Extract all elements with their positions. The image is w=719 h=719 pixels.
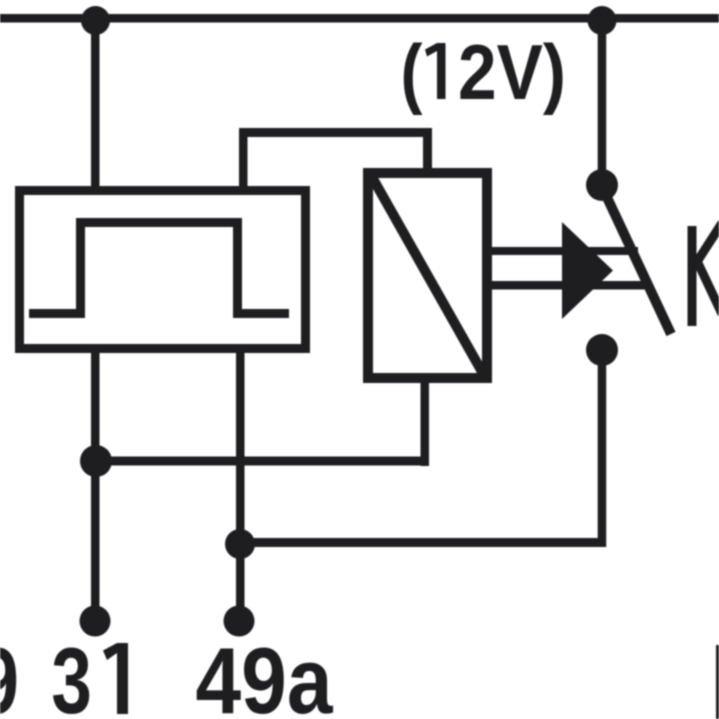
wire: bimetal box bottom right leg down to terminal 49a [236, 353, 245, 619]
partial glyph at right edge [716, 645, 719, 719]
actuation arrowhead [562, 222, 613, 319]
junction dot (node 31 branch) [80, 445, 112, 477]
bimetal flasher element box [20, 191, 306, 349]
wire: coil box bottom down [421, 378, 430, 466]
terminal dot 49a [224, 606, 255, 637]
switch lower contact dot [586, 334, 618, 366]
wire: +12V top bus [0, 14, 719, 23]
terminal dot 31 [80, 606, 111, 637]
wire: horizontal joining node at 461 [95, 457, 429, 466]
svg-text:49: 49 [0, 628, 19, 719]
junction dot (node 49a branch) [225, 529, 255, 559]
wire: bus down to bimetal element [91, 18, 100, 188]
svg-text:3: 3 [51, 628, 92, 719]
resistor / coil box with diagonal [368, 173, 487, 378]
svg-text:2V): 2V) [458, 28, 566, 116]
label K (partially cut at right edge) [692, 223, 719, 326]
svg-text:(: ( [401, 28, 423, 116]
wire: bus down to switch contact [598, 18, 607, 178]
diagonal line inside coil box [372, 177, 485, 377]
actuation arrow shaft (double line) [487, 247, 638, 255]
junction dot A (bus to flasher unit) [81, 6, 110, 35]
wire: switch lower contact down to 49a horizontal [598, 350, 607, 547]
svg-text:49a: 49a [196, 628, 334, 719]
switch arm [604, 191, 671, 334]
junction dot B (bus to switch K) [588, 6, 617, 35]
wire: bridge from bimetal box top to resistor box top [239, 128, 432, 190]
wire: bimetal box bottom left leg down to terminal 31 [91, 353, 100, 620]
bimetal contact symbol inside box [29, 218, 289, 318]
wire: horizontal from 49a node to switch lower contact [240, 538, 602, 547]
switch upper contact dot [586, 169, 618, 201]
